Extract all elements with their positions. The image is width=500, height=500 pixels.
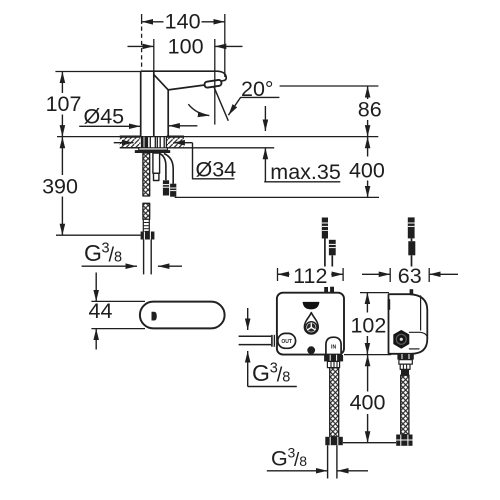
diameter 34 label with leader: [193, 143, 237, 182]
svg-text:Ø45: Ø45: [84, 105, 125, 129]
20-degree leader line: [228, 97, 279, 115]
dimension 140: [142, 10, 225, 77]
svg-text:20°: 20°: [241, 77, 274, 101]
faucet nozzle: [204, 80, 222, 88]
dimension 100: [128, 34, 243, 124]
20-degree arc with arrow: [188, 104, 209, 115]
dimension 86: [358, 86, 382, 137]
svg-text:8: 8: [299, 453, 307, 469]
reference line 390 end: [56, 234, 141, 236]
bottom hose nut side: [396, 435, 412, 446]
G 3/8 label faucet supply: [84, 240, 122, 267]
svg-text:102: 102: [350, 313, 386, 337]
water drop logo: [304, 313, 318, 334]
side view bottom fitting: [397, 354, 413, 375]
countertop section: [57, 137, 378, 148]
svg-text:112: 112: [293, 264, 327, 288]
control cable plug A: [322, 218, 328, 267]
side view cover seam: [409, 295, 427, 349]
bottom hose nut front: [325, 437, 343, 445]
svg-text:100: 100: [168, 34, 204, 58]
dimension 112: [278, 264, 344, 288]
side view latch mark: [388, 299, 391, 310]
IN fitting thread: [327, 361, 339, 367]
cable plug 2: [170, 184, 176, 197]
svg-text:400: 400: [350, 390, 386, 414]
OUT hose lines: [239, 336, 272, 344]
svg-text:400: 400: [349, 158, 385, 182]
control box side view outline: [389, 294, 428, 354]
water stream direction line: [214, 87, 228, 121]
hole arrows at counter: [114, 142, 134, 144]
hose collar: [143, 219, 149, 231]
sensor window mouth: [303, 302, 320, 310]
dimension 400 lower: [350, 355, 386, 443]
dimension 63: [362, 264, 458, 288]
dimension 400 upper: [349, 137, 385, 198]
svg-text:8: 8: [114, 250, 122, 266]
braided supply hose lower segment: [143, 203, 150, 219]
dimension G3/8 pipe width: [82, 265, 182, 267]
braided hose side box: [401, 375, 409, 434]
dimension 102: [350, 293, 389, 355]
faucet body side view: [141, 71, 227, 137]
dimension 44: [89, 273, 145, 350]
hose nut: [141, 232, 155, 240]
svg-text:IN: IN: [331, 344, 336, 350]
reference line box bottom: [344, 354, 391, 356]
svg-text:390: 390: [42, 175, 78, 199]
dimension 390: [42, 137, 78, 235]
G 3/8 label OUT hose: [252, 360, 290, 387]
dimension max.35: [264, 106, 341, 184]
dimension 107: [46, 72, 82, 137]
bottom connection pipe front: [328, 445, 337, 478]
svg-text:OUT: OUT: [281, 339, 292, 345]
cable plug 1: [163, 180, 169, 195]
diameter 45 label: [79, 105, 197, 129]
svg-text:63: 63: [398, 264, 422, 288]
control box front view outline: [277, 293, 344, 355]
svg-text:max.35: max.35: [270, 160, 341, 184]
OUT threaded nipple: [271, 335, 278, 347]
mounting flange under counter: [135, 148, 170, 153]
svg-text:G: G: [84, 240, 102, 266]
braided supply hose upper segment: [143, 153, 150, 196]
sensor window mark: [152, 312, 157, 321]
svg-text:107: 107: [46, 92, 82, 116]
battery cap hex nut: [394, 331, 408, 348]
svg-text:8: 8: [282, 370, 290, 386]
control box top connector stubs: [324, 287, 328, 293]
braided hose front box: [330, 368, 339, 437]
connection pipe G3/8: [144, 240, 152, 275]
drain dot: [307, 346, 315, 354]
side view top stub: [410, 289, 414, 294]
svg-text:44: 44: [89, 299, 113, 323]
faucet top view pill: [140, 302, 225, 329]
sensor cables: [160, 154, 174, 184]
IN port tab: [326, 337, 341, 354]
OUT port tab: [278, 333, 296, 348]
faucet shank through counter: [141, 137, 167, 148]
reference line hose end: [343, 442, 396, 444]
control cable plug B: [329, 240, 336, 267]
svg-text:86: 86: [358, 98, 382, 122]
svg-text:G: G: [271, 447, 288, 471]
dimension G3/8 OUT hose: [248, 308, 297, 387]
logo circle with fan glyph: [306, 322, 317, 333]
svg-text:Ø34: Ø34: [196, 157, 237, 181]
svg-text:140: 140: [165, 10, 201, 34]
svg-text:G: G: [252, 360, 270, 386]
control cable plug C: [408, 217, 416, 266]
dimension G3/8 bottom: [267, 470, 368, 472]
G 3/8 label bottom: [271, 445, 307, 472]
IN fitting nut: [324, 355, 343, 362]
reference line 400 end: [175, 196, 379, 198]
extension line faucet top left: [55, 71, 140, 73]
cable conduit tube: [153, 153, 160, 181]
spout height reference line: [280, 85, 379, 87]
